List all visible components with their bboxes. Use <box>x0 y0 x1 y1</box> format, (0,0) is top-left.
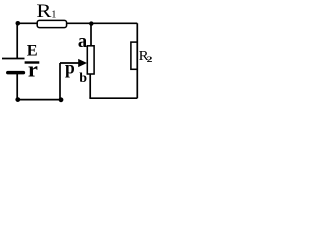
svg-text:2: 2 <box>147 54 153 64</box>
svg-text:a: a <box>78 32 87 52</box>
svg-text:b: b <box>79 71 87 86</box>
svg-text:1: 1 <box>51 9 56 20</box>
svg-text:r: r <box>28 57 38 82</box>
svg-text:p: p <box>65 57 75 77</box>
svg-text:R: R <box>36 2 52 22</box>
